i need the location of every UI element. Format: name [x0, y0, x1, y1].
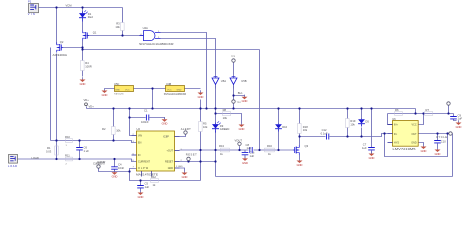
svg-text:R6: R6 — [395, 108, 399, 112]
svg-text:VCC: VCC — [412, 123, 417, 126]
capacitor C10 with ground — [434, 139, 446, 156]
svg-text:U2: U2 — [137, 127, 141, 131]
svg-text:EN: EN — [138, 142, 142, 145]
wire RESET test point stub — [188, 161, 190, 162]
ground below R4 — [80, 77, 86, 86]
wire drop from node A rail down to Q3 gate line — [259, 50, 261, 151]
svg-text:74LVC2G: 74LVC2G — [114, 94, 124, 96]
svg-text:C4: C4 — [118, 162, 122, 166]
svg-text:10k: 10k — [203, 125, 208, 129]
svg-text:Red: Red — [88, 15, 93, 19]
svg-text:GND: GND — [177, 89, 182, 91]
resistor R4 — [81, 61, 92, 71]
svg-text:R8: R8 — [223, 108, 227, 112]
resistor R1 shunt — [46, 146, 58, 155]
svg-text:RESET: RESET — [165, 161, 174, 164]
svg-text:GND: GND — [411, 142, 417, 145]
svg-text:SN74AHC1G08DCKR: SN74AHC1G08DCKR — [139, 42, 174, 46]
wire Q2 source down to LOAD line — [56, 54, 58, 160]
capacitor C6 — [76, 145, 89, 152]
wire feedback bottom line — [216, 134, 453, 177]
svg-text:VIN: VIN — [28, 12, 35, 16]
svg-text:OnPW: OnPW — [138, 167, 149, 170]
wire U2 GND pin — [180, 168, 185, 171]
capacitor C8 series — [246, 143, 253, 153]
wire VCM top rail — [39, 7, 123, 9]
wire below power ground to rail — [200, 100, 202, 109]
wire U4A input 1 to VD+ rail — [161, 33, 207, 109]
svg-text:1uF: 1uF — [247, 146, 252, 150]
svg-text:10k: 10k — [223, 116, 228, 120]
svg-text:C7: C7 — [363, 143, 367, 147]
svg-text:GND: GND — [115, 89, 120, 91]
svg-text:10k: 10k — [303, 128, 308, 132]
svg-text:LOAD: LOAD — [8, 164, 17, 168]
svg-text:1uF: 1uF — [250, 154, 255, 158]
wire C10 branch — [437, 134, 439, 148]
resistor R12 — [151, 175, 159, 187]
svg-text:R5: R5 — [203, 122, 207, 126]
svg-text:C6: C6 — [84, 145, 88, 149]
wire C1 decoupling branch — [130, 118, 165, 120]
wire D5 branch — [361, 109, 363, 137]
wire U2 OUT to R5 node — [180, 149, 294, 151]
wire U6 IN+ feed — [388, 114, 393, 125]
diode D10 — [275, 124, 288, 132]
wire Q2 gate sense branch — [50, 48, 52, 141]
wire U6 GND pin — [419, 143, 424, 145]
wire R19 branch — [347, 109, 349, 137]
svg-text:1uF: 1uF — [145, 185, 150, 189]
svg-text:IN+: IN+ — [394, 123, 398, 126]
svg-text:10k: 10k — [116, 128, 121, 132]
ground for U5B branch — [242, 95, 248, 104]
transistor Q3 — [293, 144, 309, 155]
svg-text:1uF: 1uF — [362, 146, 367, 150]
capacitor C16 with ground — [242, 151, 255, 165]
svg-text:U4B: U4B — [166, 82, 171, 86]
svg-text:100R: 100R — [85, 64, 91, 68]
op-amp U4B power part box — [164, 82, 204, 99]
svg-text:BL1: BL1 — [238, 91, 243, 95]
wire gate output to Q1 gate — [87, 35, 144, 37]
wire Q3 drain output line — [300, 134, 388, 137]
svg-text:VCC: VCC — [167, 89, 172, 91]
svg-text:LOAD: LOAD — [32, 156, 39, 160]
wire U5B ground branch — [234, 96, 245, 97]
resistor R11 — [65, 153, 73, 165]
svg-text:AO3400A: AO3400A — [53, 53, 68, 57]
wire hysteresis feedback loop — [385, 134, 448, 157]
LED D9 — [212, 121, 229, 132]
svg-text:R2: R2 — [102, 127, 106, 131]
wire VOUT branch — [240, 146, 246, 158]
svg-text:U5C: U5C — [114, 82, 119, 86]
svg-text:GND: GND — [168, 167, 174, 170]
test point TP4 — [232, 100, 242, 104]
svg-text:U5B: U5B — [241, 79, 246, 83]
ground for Q3 source — [297, 158, 303, 167]
wire U5C power box to rail — [105, 89, 201, 109]
svg-text:100nF: 100nF — [141, 120, 149, 124]
resistor R18 — [298, 124, 309, 134]
wire R2 branch — [113, 109, 115, 141]
svg-text:+OUT: +OUT — [167, 150, 174, 153]
svg-text:R18: R18 — [303, 125, 308, 129]
wire U5A output down to U5B node — [215, 86, 217, 109]
wire node A rail to drop at x=259 — [83, 49, 260, 51]
wire U4A input 2 to U5A — [161, 39, 216, 75]
transistor Q2 — [53, 40, 68, 57]
svg-text:Q2: Q2 — [60, 40, 64, 44]
wire C6 filter cap leads — [79, 141, 81, 160]
svg-text:1 uF: 1 uF — [84, 149, 90, 153]
svg-text:VCC: VCC — [125, 89, 130, 91]
svg-text:GREEN: GREEN — [220, 127, 230, 131]
svg-text:U4A: U4A — [143, 26, 148, 30]
svg-text:Q1: Q1 — [93, 31, 97, 35]
capacitor C1 with ground — [141, 108, 168, 125]
test point RESET — [186, 153, 197, 161]
svg-text:CYCLE: CYCLE — [436, 135, 447, 139]
wire D1 anode — [82, 8, 84, 13]
svg-text:R1: R1 — [47, 146, 51, 150]
svg-text:R4: R4 — [85, 61, 89, 65]
resistor R6 — [395, 108, 403, 115]
capacitor C5 with ground — [137, 181, 149, 199]
op-amp U2 current monitor IC — [132, 127, 184, 176]
resistor R8 with ground — [223, 108, 245, 131]
resistor R7 — [425, 108, 433, 115]
wire Q1 source to node A — [82, 41, 84, 61]
svg-text:SN74AHC1G08DCKR: SN74AHC1G08DCKR — [164, 92, 186, 96]
svg-text:10k: 10k — [115, 25, 120, 29]
capacitor C9 with ground — [450, 113, 462, 129]
svg-text:3 GND: 3 GND — [176, 166, 183, 168]
diode D5 — [358, 119, 369, 127]
wire U6 VCC drop — [419, 114, 424, 125]
wire VD+ to U2 VIN pin — [130, 109, 132, 136]
svg-text:OUT: OUT — [412, 133, 418, 136]
wire U5B bottom chain to VD+ rail — [233, 86, 235, 109]
wire C7 branch — [371, 109, 373, 154]
wire VD+ port stub — [86, 107, 88, 109]
power port VD+ — [84, 98, 95, 108]
svg-text:R11: R11 — [65, 153, 70, 157]
wire C9 branch to ground — [449, 106, 457, 121]
wire U5B top to test point — [233, 63, 235, 75]
resistor R3 — [115, 22, 124, 31]
wire CURRENT test point to U2 — [99, 169, 201, 181]
LED D1 — [79, 10, 93, 21]
resistor R16 — [265, 144, 275, 156]
op-amp U4A AND gate — [139, 26, 174, 46]
svg-text:U6: U6 — [392, 117, 396, 121]
wire D9 branch from VD+ rail — [215, 109, 217, 177]
svg-text:D5: D5 — [365, 119, 369, 123]
svg-text:0.1uF: 0.1uF — [321, 131, 328, 135]
wire D10 branch — [278, 109, 280, 151]
wire LOAD line — [18, 159, 137, 162]
svg-text:VCM: VCM — [66, 3, 73, 7]
connector P1 — [28, 0, 39, 16]
svg-text:C5: C5 — [145, 181, 149, 185]
svg-text:R7: R7 — [426, 108, 430, 112]
svg-text:R13: R13 — [219, 144, 224, 148]
capacitor C7 with ground — [362, 143, 375, 160]
svg-text:IC8P: IC8P — [163, 135, 169, 139]
svg-text:VIN: VIN — [138, 135, 142, 138]
svg-text:R12: R12 — [151, 175, 156, 179]
wire Q3 source to ground — [299, 155, 301, 159]
svg-text:VOUT: VOUT — [235, 138, 243, 142]
svg-text:IN-: IN- — [394, 133, 397, 136]
svg-text:Q3: Q3 — [305, 144, 309, 148]
test point CURRENT — [93, 162, 105, 169]
wire D1 cathode to Q1 drain — [82, 22, 84, 31]
wire R18 branch to Q3 drain — [299, 109, 301, 146]
svg-text:C1: C1 — [144, 108, 148, 112]
test point on comparator supply — [447, 102, 450, 105]
svg-text:R16: R16 — [267, 144, 272, 148]
capacitor C4 with ground — [111, 162, 124, 178]
svg-text:VD+: VD+ — [89, 104, 95, 108]
op-amp U5B buffer — [230, 75, 247, 96]
op-amp U5C power part box — [102, 82, 134, 97]
svg-text:R19: R19 — [350, 119, 355, 123]
wire vertical from top rail to Q2 drain — [56, 8, 58, 44]
svg-text:ALERT: ALERT — [181, 127, 191, 131]
svg-text:U5A: U5A — [221, 79, 226, 83]
wire U2 bottom pin to C5 — [140, 181, 142, 191]
wire U6 OUT line — [419, 133, 453, 135]
wire sense line H1 — [51, 141, 137, 143]
wire top rail to R3 — [122, 8, 124, 23]
svg-text:RESET: RESET — [186, 153, 197, 157]
ground for U2 GND pin — [182, 170, 188, 179]
wire VD+ rail — [87, 108, 416, 110]
svg-text:P1: P1 — [28, 0, 32, 3]
svg-text:IN: IN — [138, 154, 141, 157]
resistor R19 — [346, 119, 356, 128]
test point VOUT — [235, 138, 243, 145]
wire R4 to ground — [82, 71, 84, 77]
svg-text:10nF: 10nF — [118, 166, 124, 170]
resistor R5 — [199, 122, 208, 132]
wire C4 branch to ground — [114, 159, 116, 172]
wire RESET line — [180, 161, 216, 163]
capacitor C12 series — [321, 128, 329, 140]
resistor R10 — [65, 135, 73, 147]
resistor R13 — [219, 144, 230, 156]
svg-text:C10: C10 — [441, 139, 446, 143]
svg-text:R10: R10 — [65, 135, 70, 139]
test point TP3 — [231, 56, 236, 62]
svg-text:C12: C12 — [322, 128, 327, 132]
transistor Q1 — [83, 31, 97, 41]
svg-text:VD+: VD+ — [84, 98, 90, 102]
svg-text:LMV7219M5: LMV7219M5 — [393, 147, 417, 151]
svg-text:CURRENT: CURRENT — [93, 162, 105, 166]
svg-text:0.03: 0.03 — [46, 149, 52, 153]
wire VD+ jog down to comparator line — [388, 109, 454, 114]
wire ALERT test point stub — [180, 135, 186, 137]
test point CYCLE — [436, 132, 452, 139]
svg-text:10k: 10k — [350, 122, 355, 126]
svg-text:D10: D10 — [282, 125, 287, 129]
wire Q2 gate to node A — [63, 47, 83, 49]
connector P2 LOAD — [8, 155, 18, 168]
svg-text:CURRENT: CURRENT — [138, 161, 151, 164]
wire R8 to ground — [216, 114, 242, 123]
test point ALERT — [181, 127, 191, 134]
resistor R2 — [102, 127, 121, 135]
comparator U6 — [388, 117, 419, 151]
svg-text:HYS: HYS — [394, 142, 399, 145]
wire R3 to gate output line — [122, 31, 124, 36]
op-amp U5A buffer — [212, 75, 226, 89]
ground for U6 GND pin — [421, 144, 427, 153]
svg-text:1uF: 1uF — [458, 117, 463, 121]
wire R5 pull-up and feedback vertical — [200, 109, 202, 181]
